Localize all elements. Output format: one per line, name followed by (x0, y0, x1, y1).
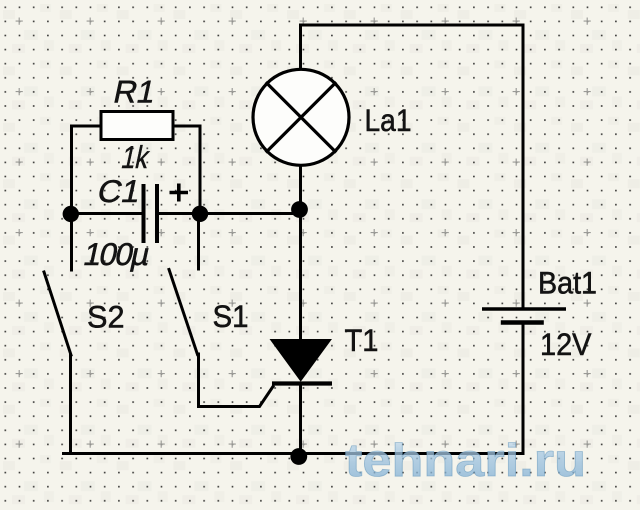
svg-text:C1: C1 (94, 173, 144, 209)
svg-text:tehnari.ru: tehnari.ru (345, 434, 586, 486)
svg-text:Bat1: Bat1 (538, 265, 597, 301)
svg-text:S1: S1 (213, 298, 249, 334)
svg-text:S2: S2 (87, 299, 125, 335)
svg-text:100µ: 100µ (81, 236, 154, 272)
svg-text:12V: 12V (540, 326, 592, 362)
svg-text:T1: T1 (345, 322, 379, 358)
svg-text:R1: R1 (111, 74, 160, 110)
svg-text:La1: La1 (365, 102, 412, 138)
